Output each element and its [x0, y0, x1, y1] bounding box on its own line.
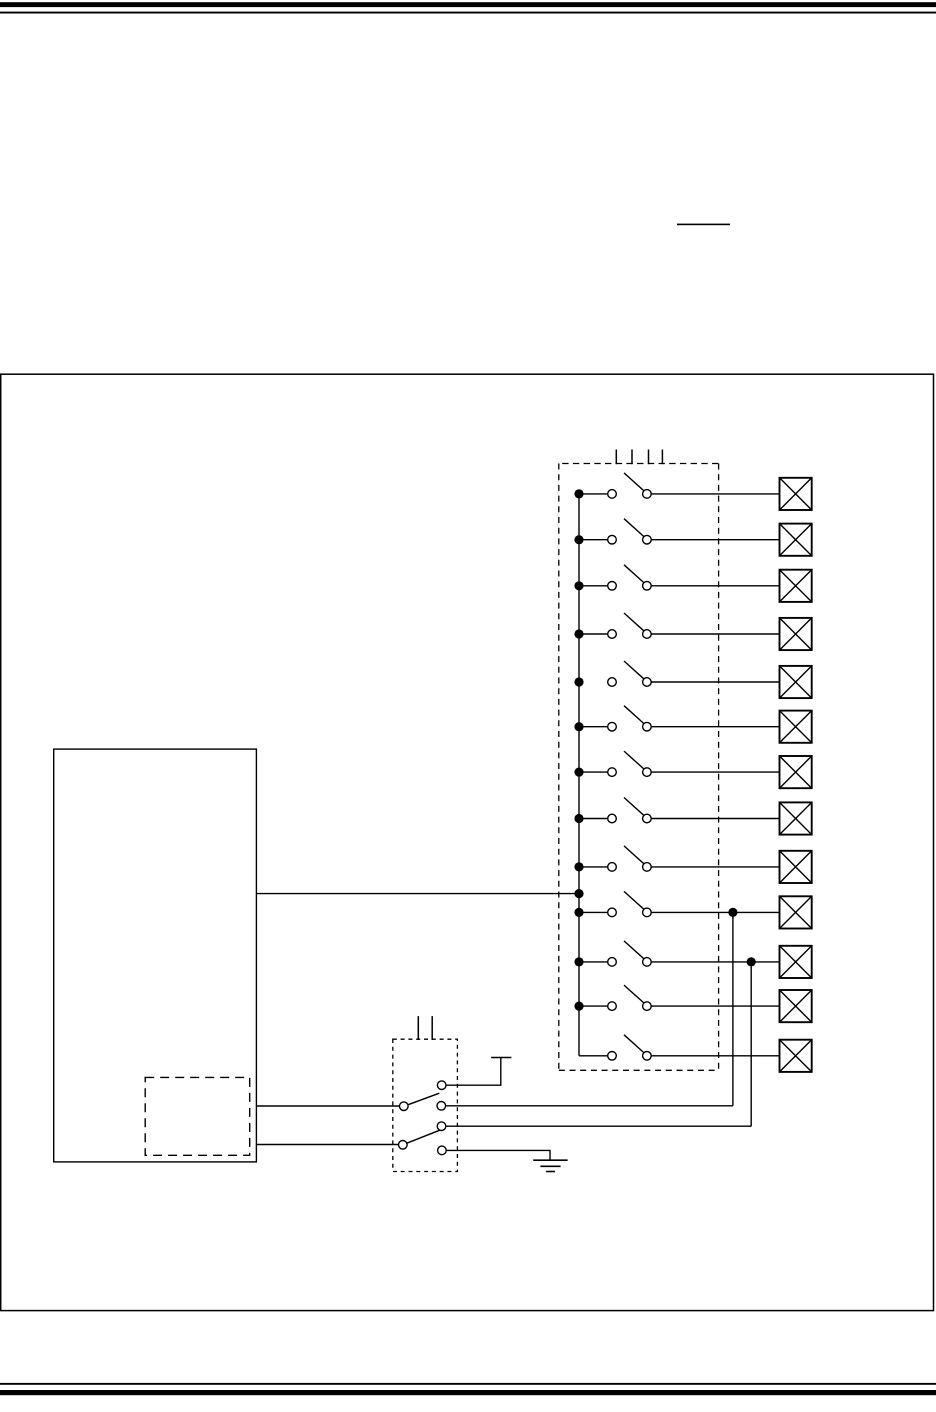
wire: switch S1 to lamp L1: [651, 493, 779, 495]
connector pin mark 3 (switch bank): [648, 450, 650, 465]
wire: relay module to switch pole 2: [256, 1144, 398, 1146]
switch S8 blade: [624, 798, 644, 816]
wire: switch S9 to lamp L9: [651, 866, 779, 868]
lamp L9: [780, 851, 812, 883]
wire: switch S6 to lamp L6: [651, 726, 779, 728]
wire: L10 tap down to changeover contact: [732, 912, 734, 1105]
node: bus junction row 1: [574, 489, 583, 498]
node: tap junction on lamp L11 wire: [747, 957, 756, 966]
lamp L3: [780, 570, 812, 602]
switch S11 blade: [624, 941, 644, 959]
switch S1 blade: [624, 473, 644, 491]
switch S4 output terminal: [643, 630, 652, 639]
node: bus junction row 5: [574, 677, 583, 686]
wire: switch S12 to lamp L12: [651, 1005, 779, 1007]
footer thin rule: [0, 1383, 936, 1385]
switch S5 blade: [624, 661, 644, 679]
footer thick rule: [0, 1390, 936, 1395]
lamp L5: [780, 666, 812, 698]
switch S6 output terminal: [643, 722, 652, 731]
switch S12 pole terminal: [608, 1002, 617, 1011]
switch S10 pole terminal: [608, 908, 617, 917]
changeover contact D: [437, 1122, 446, 1131]
switch S9 pole terminal: [608, 863, 617, 872]
wire: bus to switch S11: [579, 961, 608, 963]
wire: bus to switch S9: [579, 866, 608, 868]
switch S7 pole terminal: [608, 768, 617, 777]
wire: contact A to spare terminal: [446, 1058, 501, 1086]
changeover switch enclosure (dotted): [393, 1039, 458, 1171]
lamp L2: [780, 524, 812, 556]
node: bus junction row 2: [574, 535, 583, 544]
node: bus junction row 9: [574, 862, 583, 871]
lamp L4: [780, 618, 812, 650]
header thin rule: [0, 12, 936, 14]
wire: changeover contact D to L11 tap: [446, 1125, 751, 1127]
wire: bus to switch S8: [579, 818, 608, 820]
changeover contact C: [437, 1102, 446, 1111]
changeover pole 2 blade: [407, 1130, 440, 1143]
switch S3 blade: [624, 565, 644, 583]
node: bus junction row 8: [574, 814, 583, 823]
wire: changeover contact C to L10 tap: [446, 1105, 733, 1107]
wire: bus to switch S7: [579, 771, 608, 773]
lamp L6: [780, 711, 812, 743]
wire: switch S2 to lamp L2: [651, 539, 779, 541]
switch S13 pole terminal: [608, 1052, 617, 1061]
lamp L11: [780, 946, 812, 978]
switch S5 output terminal: [643, 678, 652, 687]
switch S6 pole terminal: [608, 722, 617, 731]
wire: bus to switch S3: [579, 585, 608, 587]
connector pin mark 4 (switch bank): [661, 450, 663, 465]
wire: bus to switch S1: [579, 493, 608, 495]
switch S13 blade: [624, 1035, 644, 1053]
switch S9 blade: [624, 846, 644, 864]
switch S13 output terminal: [643, 1052, 652, 1061]
lamp L1: [780, 478, 812, 510]
switch S2 pole terminal: [608, 535, 617, 544]
switch S3 output terminal: [643, 582, 652, 591]
figure border frame: [1, 374, 934, 1310]
node: bus junction row 11: [574, 957, 583, 966]
lamp L13: [780, 1040, 812, 1072]
wire: contact F to ground: [446, 1150, 550, 1160]
node: bus junction row 4: [574, 629, 583, 638]
changeover pole 1 common terminal: [400, 1102, 409, 1111]
wire: bus to switch S6: [579, 726, 608, 728]
spare terminal bar: [491, 1057, 511, 1059]
switch bank enclosure (dashed): [559, 464, 719, 1071]
header thick rule: [0, 2, 936, 7]
redacted text underline: [677, 224, 730, 226]
lamp L7: [780, 756, 812, 788]
switch S1 pole terminal: [608, 490, 617, 499]
changeover contact A (spare): [437, 1081, 446, 1090]
wire: common bus: [578, 494, 580, 1056]
wire: bus to switch S12: [579, 1005, 608, 1007]
relay module sub-block (dashed): [145, 1077, 250, 1155]
lamp L12: [780, 990, 812, 1022]
wire: switch S10 to lamp L10: [651, 911, 779, 913]
node: tap junction on lamp L10 wire: [728, 908, 737, 917]
wire: switch S11 to lamp L11: [651, 961, 779, 963]
changeover pole 2 common terminal: [399, 1141, 408, 1150]
switch S7 blade: [624, 751, 644, 769]
node: bus feed junction: [574, 889, 583, 898]
switch S8 pole terminal: [608, 814, 617, 823]
switch S10 output terminal: [643, 908, 652, 917]
switch S2 blade: [624, 519, 644, 537]
switch S7 output terminal: [643, 768, 652, 777]
wire: switch S8 to lamp L8: [651, 818, 779, 820]
switch S11 output terminal: [643, 958, 652, 967]
switch S10 blade: [624, 891, 644, 909]
connector pin mark 2 (changeover switch): [431, 1016, 433, 1040]
lamp L8: [780, 802, 812, 834]
switch S11 pole terminal: [608, 958, 617, 967]
control unit block: [54, 749, 257, 1162]
node: bus junction row 6: [574, 722, 583, 731]
changeover contact F (to ground): [438, 1146, 447, 1155]
switch S6 blade: [624, 706, 644, 724]
node: bus junction row 3: [574, 581, 583, 590]
node: bus junction row 12: [574, 1002, 583, 1011]
switch S4 blade: [624, 613, 644, 631]
wire: bus to switch S13: [579, 1055, 608, 1057]
node: bus junction row 7: [574, 768, 583, 777]
switch S5 pole terminal: [608, 678, 617, 687]
wire: switch S5 to lamp L5: [651, 681, 779, 683]
wire: control unit to lamp bus: [256, 893, 579, 895]
wire: bus to switch S4: [579, 633, 608, 635]
switch S12 blade: [624, 985, 644, 1003]
wire: switch S13 to lamp L13: [651, 1055, 779, 1057]
node: bus junction row 10: [574, 908, 583, 917]
wire: L11 tap down to changeover contact: [750, 962, 752, 1126]
wire: bus to switch S10: [579, 911, 608, 913]
connector pin mark 1 (switch bank): [615, 450, 617, 465]
wire: bus to switch S2: [579, 539, 608, 541]
lamp L10: [780, 896, 812, 928]
wire: relay module to switch pole 1: [256, 1105, 399, 1107]
ground: [533, 1160, 567, 1171]
switch S2 output terminal: [643, 535, 652, 544]
switch S8 output terminal: [643, 814, 652, 823]
connector pin mark 2 (switch bank): [631, 450, 633, 465]
switch S9 output terminal: [643, 863, 652, 872]
wire: switch S3 to lamp L3: [651, 585, 779, 587]
connector pin mark 1 (changeover switch): [417, 1016, 419, 1040]
switch S12 output terminal: [643, 1002, 652, 1011]
switch S4 pole terminal: [608, 630, 617, 639]
wire: switch S7 to lamp L7: [651, 771, 779, 773]
wire: switch S4 to lamp L4: [651, 633, 779, 635]
changeover pole 1 blade: [408, 1093, 440, 1105]
switch S1 output terminal: [643, 490, 652, 499]
switch S3 pole terminal: [608, 582, 617, 591]
